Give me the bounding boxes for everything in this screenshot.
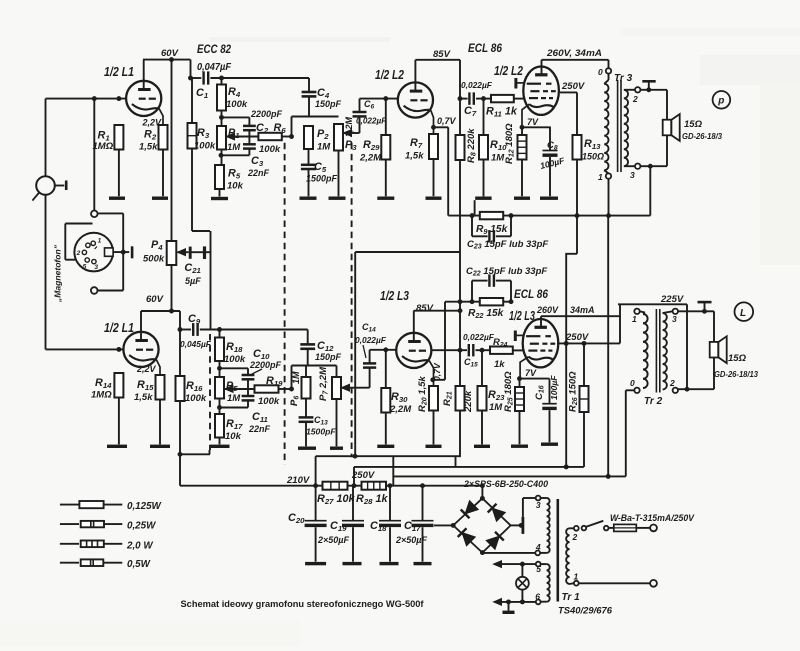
svg-text:22nF: 22nF	[247, 168, 270, 178]
svg-text:85V: 85V	[416, 303, 434, 314]
svg-text:ECC 82: ECC 82	[197, 42, 231, 56]
svg-text:GD-26-18/13: GD-26-18/13	[714, 369, 758, 379]
svg-text:R9 15k: R9 15k	[476, 224, 509, 236]
svg-text:„Magnetofon”: „Magnetofon”	[53, 244, 63, 303]
svg-text:1M: 1M	[227, 393, 241, 404]
svg-text:0,047µF: 0,047µF	[197, 62, 232, 73]
svg-text:7V: 7V	[527, 117, 539, 127]
svg-text:TS40/29/676: TS40/29/676	[558, 606, 613, 617]
svg-text:ECL 86: ECL 86	[468, 41, 502, 55]
svg-text:2: 2	[76, 250, 81, 257]
svg-text:0,022µF: 0,022µF	[355, 335, 387, 345]
svg-text:2200pF: 2200pF	[250, 109, 283, 119]
svg-text:0,5W: 0,5W	[127, 559, 151, 570]
svg-text:250V: 250V	[351, 470, 375, 481]
svg-text:3: 3	[630, 170, 635, 180]
svg-text:Tr 2: Tr 2	[644, 396, 663, 407]
svg-text:R28 1k: R28 1k	[356, 493, 388, 506]
svg-text:1: 1	[598, 172, 603, 182]
svg-text:1/2 L1: 1/2 L1	[104, 320, 134, 335]
svg-text:85V: 85V	[433, 49, 451, 60]
svg-text:1M: 1M	[291, 371, 301, 384]
svg-text:260V: 260V	[536, 305, 559, 315]
svg-text:220k: 220k	[463, 390, 474, 413]
svg-text:0,125W: 0,125W	[127, 501, 162, 512]
svg-text:R8 220k: R8 220k	[466, 128, 478, 163]
svg-text:34mA: 34mA	[570, 305, 595, 315]
svg-text:0: 0	[598, 67, 603, 77]
svg-text:100k: 100k	[224, 354, 246, 365]
svg-text:150Ω: 150Ω	[582, 152, 604, 162]
svg-text:2: 2	[669, 378, 675, 388]
svg-text:1500pF: 1500pF	[306, 174, 338, 184]
svg-text:R12 180Ω: R12 180Ω	[504, 123, 516, 164]
svg-text:2,2V: 2,2V	[142, 118, 163, 128]
svg-text:10k: 10k	[225, 431, 242, 442]
svg-text:0,7V: 0,7V	[437, 116, 457, 126]
svg-text:15Ω: 15Ω	[684, 119, 703, 130]
svg-text:ECL 86: ECL 86	[514, 287, 548, 301]
svg-text:1: 1	[574, 572, 579, 582]
svg-text:2,2V: 2,2V	[136, 364, 157, 374]
svg-text:W-Ba-T-315mA/250V: W-Ba-T-315mA/250V	[610, 513, 695, 523]
svg-text:150pF: 150pF	[315, 352, 342, 362]
svg-text:150pF: 150pF	[315, 99, 342, 109]
svg-text:1M: 1M	[489, 402, 503, 413]
svg-text:5: 5	[83, 264, 87, 271]
svg-text:1,5k: 1,5k	[139, 142, 158, 153]
svg-text:3: 3	[672, 314, 677, 324]
svg-text:2×SPS-6B-250-C400: 2×SPS-6B-250-C400	[463, 479, 549, 489]
svg-text:1500pF: 1500pF	[306, 427, 336, 437]
svg-text:R26 150Ω: R26 150Ω	[568, 371, 580, 412]
svg-text:2: 2	[572, 532, 578, 542]
svg-text:500k: 500k	[143, 254, 165, 265]
svg-text:GD-26-18/3: GD-26-18/3	[682, 131, 722, 141]
svg-text:22nF: 22nF	[248, 424, 271, 434]
svg-text:250V: 250V	[561, 81, 585, 92]
svg-text:0,25W: 0,25W	[127, 521, 156, 532]
svg-text:R27 10k: R27 10k	[317, 493, 355, 506]
svg-text:R11 1k: R11 1k	[486, 106, 518, 119]
svg-text:Schemat ideowy gramofonu stere: Schemat ideowy gramofonu stereofoniczneg…	[181, 599, 425, 609]
svg-text:1MΩ: 1MΩ	[91, 390, 112, 401]
svg-text:1/2 L3: 1/2 L3	[509, 308, 536, 323]
svg-text:1,5k: 1,5k	[405, 151, 424, 162]
svg-text:60V: 60V	[146, 294, 164, 305]
svg-text:100µF: 100µF	[549, 375, 559, 400]
svg-text:3: 3	[536, 500, 541, 510]
svg-text:3: 3	[94, 264, 98, 271]
svg-text:1: 1	[632, 314, 637, 324]
svg-text:1M: 1M	[227, 142, 241, 153]
svg-text:100k: 100k	[226, 99, 248, 110]
svg-text:Tr 1: Tr 1	[562, 592, 581, 603]
svg-text:260V, 34mA: 260V, 34mA	[546, 48, 602, 59]
svg-text:0,022µF: 0,022µF	[461, 80, 493, 90]
svg-text:p: p	[717, 96, 724, 107]
svg-text:7V: 7V	[525, 368, 537, 378]
svg-text:R22 15k: R22 15k	[468, 308, 505, 320]
svg-text:0: 0	[630, 378, 635, 388]
svg-text:100k: 100k	[194, 141, 216, 152]
svg-text:1: 1	[98, 238, 102, 245]
svg-text:100k: 100k	[185, 393, 207, 404]
svg-text:6: 6	[535, 591, 540, 601]
svg-text:R25 180Ω: R25 180Ω	[503, 371, 515, 412]
svg-text:1/2 L2: 1/2 L2	[375, 67, 405, 82]
svg-text:R20 1,5k: R20 1,5k	[417, 375, 429, 412]
svg-text:210V: 210V	[286, 475, 310, 486]
svg-text:1MΩ: 1MΩ	[93, 141, 114, 152]
svg-text:0,022µF: 0,022µF	[463, 332, 495, 342]
svg-text:1/2 L2: 1/2 L2	[494, 63, 524, 78]
svg-text:2: 2	[632, 94, 638, 104]
svg-text:0,7V: 0,7V	[432, 362, 442, 381]
svg-text:10k: 10k	[227, 181, 244, 192]
svg-text:1k: 1k	[494, 359, 505, 370]
svg-text:P7 2,2M: P7 2,2M	[318, 366, 330, 401]
svg-text:2200pF: 2200pF	[249, 360, 282, 370]
svg-text:1M: 1M	[317, 142, 331, 153]
svg-text:4: 4	[535, 542, 541, 552]
svg-text:0,045µF: 0,045µF	[180, 339, 212, 349]
svg-text:2×50µF: 2×50µF	[395, 535, 427, 545]
svg-text:2,0 W: 2,0 W	[126, 540, 153, 551]
svg-text:5: 5	[536, 564, 541, 574]
svg-text:1/2 L1: 1/2 L1	[104, 64, 134, 79]
svg-text:60V: 60V	[161, 48, 179, 59]
svg-text:1,5k: 1,5k	[134, 392, 153, 403]
svg-text:15Ω: 15Ω	[728, 353, 747, 364]
svg-text:5µF: 5µF	[185, 276, 201, 286]
svg-text:100k: 100k	[258, 396, 280, 407]
svg-text:100k: 100k	[259, 144, 281, 155]
svg-text:2,2M: 2,2M	[359, 153, 382, 164]
svg-text:2×50µF: 2×50µF	[317, 535, 349, 545]
svg-text:L: L	[740, 308, 746, 319]
svg-text:0,022µF: 0,022µF	[356, 117, 387, 126]
svg-text:2,2M: 2,2M	[389, 404, 412, 415]
svg-text:1/2 L3: 1/2 L3	[380, 288, 410, 303]
svg-text:Tr 3: Tr 3	[614, 73, 633, 84]
